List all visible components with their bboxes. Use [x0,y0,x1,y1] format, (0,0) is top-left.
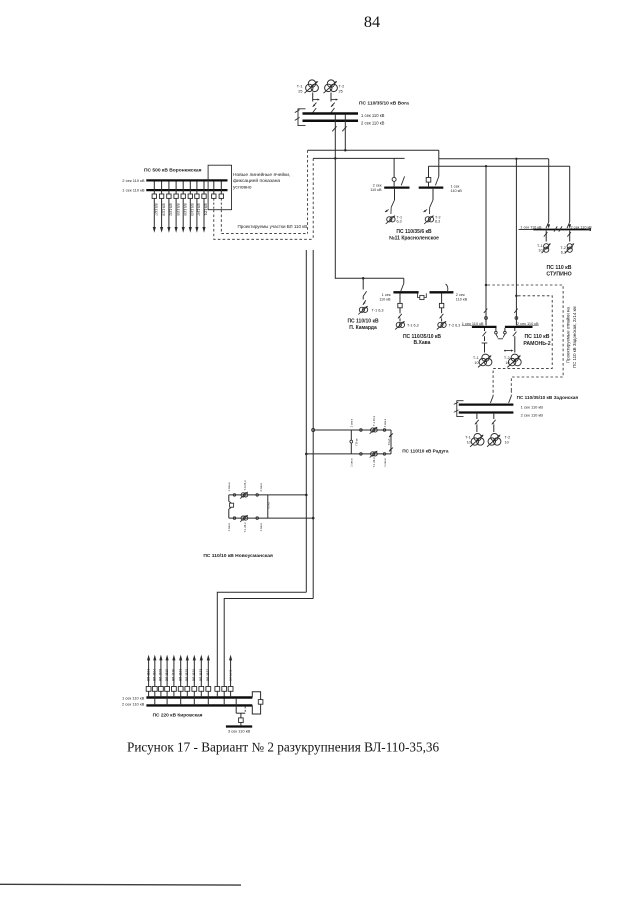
transformer T-1 25 (PS Voga) [305,80,319,93]
feeder line ВЛ-1143 (Voronezhskaya) [188,182,194,233]
svg-text:1 сек: 1 сек [382,293,391,297]
left trunk dashed segment (x=307.6) [307,150,309,233]
svg-text:10: 10 [467,440,471,444]
Raduga bottom feed wire (tap on left trunk) [305,453,391,456]
bay P.Kamarda (disconnector, arrow) [363,278,367,305]
trunk entry breaker right (square) [222,687,227,705]
bus section 1 Zadonskaya [459,403,514,405]
svg-text:ВЛ-1135: ВЛ-1135 [176,204,180,216]
bus section 2 Ramon-2 [505,326,533,328]
transformer T-1 10 Stupino [542,231,552,254]
wire D1: Voga bus to lower network (x=335) [332,115,336,279]
svg-text:2 сек: 2 сек [456,293,465,297]
transformer T-2 25 (PS Voga) [324,80,338,93]
junction dashed tap on x=516.4 [515,295,518,298]
transformer T-1 6,3 P.Kamarda [358,305,368,314]
svg-text:Т-1: Т-1 [537,244,543,248]
svg-text:Т-1 26,3: Т-1 26,3 [372,457,376,468]
transformer T-2 6,3 Stupino [565,231,575,254]
section link to 3rd bus section [236,699,245,726]
svg-text:ПС 110/10 кВ Новоусманская: ПС 110/10 кВ Новоусманская [203,553,273,559]
svg-text:2 сек 110 кВ: 2 сек 110 кВ [521,412,544,417]
svg-text:2 сек: 2 сек [373,183,382,187]
svg-text:1 сек 110 кВ: 1 сек 110 кВ [122,188,145,193]
svg-text:25: 25 [339,89,343,93]
svg-text:6,3: 6,3 [561,251,566,255]
bus section 2 Voronezhskaya [146,179,227,181]
wire H-upper: x=438.8 to Stupino (y=158.8) [439,158,549,160]
svg-text:1 сек 110 кВ: 1 сек 110 кВ [361,113,385,118]
svg-text:Т-2: Т-2 [339,85,345,89]
scan edge line bottom left [0,883,241,886]
bus section 2 (Krasnolesnoye bar1) [384,186,409,188]
svg-text:Т-1 6,3: Т-1 6,3 [407,324,419,328]
dashed proposed tap B (inner): from x=516.4 to Zadonskaya [493,296,552,391]
svg-text:Т-2: Т-2 [504,356,510,360]
svg-text:ВЛ-1147: ВЛ-1147 [197,204,201,216]
feeder line right of trunks (Kirovskaya) [228,655,233,698]
right trunk dashed segment (x=313.2) [312,158,314,239]
svg-text:Т-2 6,3: Т-2 6,3 [449,324,461,328]
bus tie with breaker square V.Khava [418,293,427,299]
bus section 1 (Krasnolesnoye bar2) [419,186,444,188]
transformer bay T-2 V.Khava [437,293,447,329]
feeder line ВЛ-1151 (Voronezhskaya) [202,182,208,233]
bypass disconnector bar1 Krasnolesnoye [401,176,404,185]
junction H-upper to Ramon-2 right feed [515,158,517,160]
Novousmanskaya bottom feed wire (tap on right trunk) [229,517,315,520]
feeder line ВЛ-1108 (Kirovskaya) [159,655,164,698]
svg-text:Т-2: Т-2 [560,246,566,250]
transformer bay T-2 10 Zadonskaya [487,414,501,447]
svg-text:ВЛ-1133: ВЛ-1133 [199,669,203,681]
bus section 1 Ramon-2 [472,326,497,328]
junction D1 x H2 [334,157,337,160]
transformer bay T-1 V.Khava (square breaker) [395,293,405,329]
bus section 2 Kirovskaya [146,704,252,706]
svg-text:ВЛ-1132: ВЛ-1132 [169,204,173,216]
transformer bay T-2 10 Ramon-2 [504,328,521,367]
svg-text:ПЗ кЗ: ПЗ кЗ [267,502,271,509]
svg-text:ВЛ-1125: ВЛ-1125 [185,669,189,681]
bus tie U-link Ramon-2 [495,328,507,339]
svg-text:25: 25 [298,89,302,93]
feeder line ВЛ-1127 (Voronezhskaya) [152,182,158,233]
svg-text:1 сек: 1 сек [451,184,460,188]
svg-text:Проектируемы участки ВЛ 110 кВ: Проектируемы участки ВЛ 110 кВ [238,224,308,229]
Raduga right side link with disconnectors [388,430,392,454]
transformer bay T-2 6,3 Krasnolesnoye [423,189,435,224]
bypass disconnector bar2 Krasnolesnoye [435,176,438,185]
svg-text:В.Хава: В.Хава [414,340,431,346]
svg-text:ПС 110/35/6 кВ: ПС 110/35/6 кВ [396,229,432,235]
svg-text:10: 10 [474,361,478,365]
feed wire to Ramon-2 bar2 (x=516.4) [514,159,518,326]
bus section 2 Zadonskaya [459,411,514,413]
svg-text:ВЛ-1104: ВЛ-1104 [153,669,157,681]
svg-text:2 сек 110 кВ: 2 сек 110 кВ [361,120,385,125]
svg-text:Рисунок 17 - Вариант № 2 разук: Рисунок 17 - Вариант № 2 разукрупнения В… [127,740,439,755]
box: new line bays shown conditionally [208,165,231,210]
svg-text:Т-1 25,3: Т-1 25,3 [372,415,376,426]
svg-text:1 сек 110 кВ: 1 сек 110 кВ [521,404,544,409]
bay of T-1 to bus (wire, load arrow, disconnectors) [312,93,320,113]
svg-text:Т-2: Т-2 [435,215,441,219]
svg-text:ВЛ-1129: ВЛ-1129 [192,669,196,681]
svg-text:1 сек в: 1 сек в [227,522,231,531]
wire to Stupino bus right (drop x=569.7) [567,166,571,228]
wire corner D1 to V.Khava (y=278.7) [335,277,404,279]
feeder line ВЛ-1135 (Voronezhskaya) [174,182,180,233]
svg-text:2 сек 110 кВ: 2 сек 110 кВ [122,701,145,706]
svg-text:2 сек в: 2 сек в [259,482,263,491]
svg-text:ПС 220 кВ Кировская: ПС 220 кВ Кировская [153,712,203,718]
svg-text:ВЛ-1137: ВЛ-1137 [206,669,210,681]
wire H1: left trunk top corner to x=438.8 [308,149,439,151]
left trunk solid (x=306.3) down to bend [305,250,307,592]
svg-text:Проектируемые отпайки на: Проектируемые отпайки на [566,307,571,363]
svg-text:ВЛ-1128: ВЛ-1128 [161,204,165,216]
svg-text:ПС 110/35/10 кВ Вога: ПС 110/35/10 кВ Вога [359,101,409,107]
svg-text:84: 84 [364,12,380,31]
svg-text:110 кВ: 110 кВ [370,188,382,192]
junction tap P.Kamarda [362,277,365,280]
breaker bay (square) bar2 Krasnolesnoye [426,166,431,186]
breaker bay (circle) bar1 Krasnolesnoye [392,158,396,186]
svg-text:СТУПИНО: СТУПИНО [546,271,571,277]
Raduga top transformer branch T-1 [360,426,386,434]
Raduga bottom transformer branch T-2 [360,450,386,458]
svg-text:ПС 110 кВ: ПС 110 кВ [546,265,571,271]
svg-text:110 кВ: 110 кВ [456,298,468,302]
feeder line ВЛ-1104 (Kirovskaya) [152,655,157,706]
wire H1 drop at x=438.8 with branch [438,150,440,176]
feeder line ВЛ-1112 (Kirovskaya) [165,655,170,706]
svg-text:Т-1: Т-1 [297,85,303,89]
bus bridge bracket Zadonskaya [454,401,464,417]
svg-text:3 сек 110 кВ: 3 сек 110 кВ [228,729,251,734]
svg-text:ПС 110/10 кВ Радуга: ПС 110/10 кВ Радуга [402,449,449,454]
svg-text:ПС 110/35/10 кВ Задонская: ПС 110/35/10 кВ Задонская [517,395,579,400]
svg-text:ВЛ-1101: ВЛ-1101 [146,669,150,681]
svg-text:ВЛ-1112: ВЛ-1112 [165,669,169,681]
dashed incoming line 2 to Zadonskaya [509,391,512,403]
svg-text:110 кВ: 110 кВ [379,298,391,302]
svg-text:1 сек 110 кВ: 1 сек 110 кВ [520,225,542,229]
bus section 1 110 kV (PS Voga) [303,112,359,115]
incoming disconnector to V.Khava bar1 [401,278,404,291]
feeder line ВЛ-1139 (Voronezhskaya) [181,182,187,233]
bus section 1 V.Khava [393,291,418,293]
svg-text:ВЛ-1116: ВЛ-1116 [172,669,176,681]
svg-text:2 сек 110 кВ: 2 сек 110 кВ [571,225,593,229]
svg-text:10: 10 [538,249,542,253]
svg-text:1 сек в: 1 сек в [350,458,354,467]
svg-text:№11 Красноленское: №11 Красноленское [389,235,439,241]
wire H2: right trunk top corner to Krasnolesnoye bar1 bay [313,157,404,159]
feeder line ВЛ-1129 (Kirovskaya) [192,655,197,706]
junction dashed tap on x=486 [485,284,488,287]
svg-text:фиксацией показана: фиксацией показана [233,177,280,184]
transformer bay T-1 10 Zadonskaya [470,414,484,447]
feed wire to Ramon-2 bar1 (x=486) [484,166,488,325]
feeder line ВЛ-1137 (Kirovskaya) [206,655,211,706]
svg-text:Т-1 6,3: Т-1 6,3 [372,308,384,312]
svg-text:Т-1: Т-1 [473,356,479,360]
new feeder bay ВЛ-35 (in box) [212,182,216,210]
trunk entry breaker left (square) [215,687,220,697]
right trunk bend to Kirovskaya [224,599,313,687]
Novousmanskaya top feed wire (tap on left trunk) [229,494,308,497]
svg-text:2 сек 110 кВ: 2 сек 110 кВ [122,178,145,183]
svg-text:2 сек в: 2 сек в [383,418,387,427]
svg-text:1 сек в: 1 сек в [259,522,263,531]
svg-text:10: 10 [505,361,509,365]
junction D2 x H1 [344,149,347,152]
svg-text:П. Камарда: П. Камарда [349,325,377,331]
bus section 1 Kirovskaya [146,696,252,698]
feeder line ВЛ-1133 (Kirovskaya) [199,655,204,698]
svg-text:Т-1: Т-1 [397,215,403,219]
Raduga top feed wire (tap on right trunk) [312,429,391,432]
svg-text:Т-1 26,3: Т-1 26,3 [243,522,247,533]
new feeder bay ВЛ-36 (in box) [219,182,223,210]
bus sectionalizer Stupino [554,226,562,231]
svg-text:ВЛ-1151: ВЛ-1151 [204,204,208,216]
svg-text:ВЛ-1143: ВЛ-1143 [190,204,194,216]
right trunk solid (x=313.2) down to bend [312,250,314,599]
svg-text:Т-2: Т-2 [505,436,511,440]
bus section 3 Kirovskaya [226,725,252,727]
svg-text:6,3: 6,3 [435,220,440,224]
bus bridge bracket with disconnectors (PS Voga left) [295,109,306,126]
svg-text:ВЛ-1141: ВЛ-1141 [228,669,232,681]
svg-text:ПС 110/35/10 кВ: ПС 110/35/10 кВ [403,334,441,340]
feeder line ВЛ-1121 (Kirovskaya) [178,655,183,706]
svg-text:РАМОНЬ-2: РАМОНЬ-2 [523,341,550,347]
svg-text:ПЗ кв: ПЗ кв [355,438,359,445]
bay of T-2 to bus [330,93,338,113]
feeder line ВЛ-1101 (Kirovskaya) [146,655,151,698]
transformer bay T-1 10 Ramon-2 [478,328,492,367]
left trunk bend to Kirovskaya [217,592,306,686]
svg-text:110 кВ: 110 кВ [451,189,463,193]
feeder line ВЛ-1147 (Voronezhskaya) [195,182,201,233]
svg-text:Т-0 25,3: Т-0 25,3 [243,480,247,491]
feeder line ВЛ-1116 (Kirovskaya) [172,655,177,698]
svg-text:ПС 110 кВ: ПС 110 кВ [524,334,549,340]
Novousmanskaya bottom transformer branch [233,514,258,522]
svg-text:ПС 110/10 кВ: ПС 110/10 кВ [347,319,379,325]
dashed new feeder drop right (to left trunk) [221,210,307,234]
svg-text:10: 10 [505,440,509,444]
Raduga left crossover with disconnector circle [350,430,353,454]
bus PS Stupino 110 kV [533,229,590,231]
junction H3 to Ramon-2 left feed [485,165,487,167]
svg-text:условно: условно [233,186,252,191]
feeder line ВЛ-1132 (Voronezhskaya) [167,182,173,233]
svg-text:ВЛ-1121: ВЛ-1121 [178,669,182,681]
svg-text:Новые линейные ячейки,: Новые линейные ячейки, [233,171,290,178]
svg-text:Т-1: Т-1 [465,436,471,440]
svg-text:ПС 500 кВ Воронежская: ПС 500 кВ Воронежская [144,168,202,174]
Novousmanskaya left link with breaker square [229,495,234,518]
bus section 2 110 kV (PS Voga) [303,120,359,123]
svg-text:6,3: 6,3 [397,220,402,224]
bus section 1 Voronezhskaya [146,189,227,191]
Novousmanskaya top transformer branch [233,491,258,499]
svg-text:1 сек 110 кВ: 1 сек 110 кВ [122,695,145,700]
wire H3: Krasnolesnoye bar2 breaker to Stupino (y=166.2) [429,165,570,167]
transformer bay T-1 6,3 Krasnolesnoye [384,189,396,224]
dashed incoming line 1 to Zadonskaya [490,391,493,403]
svg-text:1 сек ш: 1 сек ш [227,482,231,491]
feeder line ВЛ-1125 (Kirovskaya) [185,655,190,698]
svg-text:ТЗ-кЗ: ТЗ-кЗ [387,438,391,445]
open incoming disconnector hook on V.Khava bar2 [446,284,448,291]
svg-text:2 сек в: 2 сек в [350,418,354,427]
wire D2: Voga bus to H1 (x=345.3) [342,115,346,151]
dashed new feeder drop left (to right trunk) [214,210,313,240]
svg-text:ВЛ-1139: ВЛ-1139 [183,204,187,216]
wire to Stupino bus left (drop x=548.7) [546,159,550,229]
dashed proposed tap A (outer): from x=486 to Zadonskaya [488,285,564,391]
bypass link with breaker (right of Kirovskaya bus) [252,692,263,714]
svg-text:ВЛ-1108: ВЛ-1108 [159,669,163,681]
bus section 2 V.Khava [430,291,454,293]
feeder line ВЛ-1128 (Voronezhskaya) [159,182,165,233]
Novousmanskaya crossover wire [267,495,269,518]
svg-text:1 сек в: 1 сек в [383,458,387,467]
svg-text:ПС 110 кВ Задонская, 2х14 км: ПС 110 кВ Задонская, 2х14 км [572,306,577,368]
svg-text:ВЛ-1127: ВЛ-1127 [154,204,158,216]
